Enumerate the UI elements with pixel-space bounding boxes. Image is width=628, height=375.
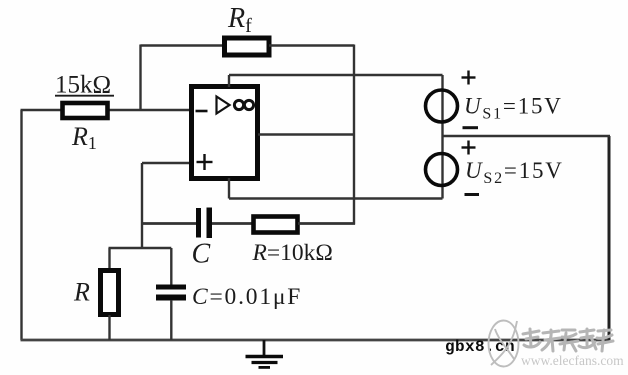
svg-text:Rf: Rf <box>227 3 252 37</box>
svg-text:C=0.01μF: C=0.01μF <box>192 284 302 310</box>
wire output feedback vertical <box>353 45 355 225</box>
wire source column <box>441 75 443 199</box>
label C (series capacitor) <box>192 239 211 270</box>
wire C R row segment 2 <box>212 222 252 225</box>
op-amp plus input sign <box>197 154 213 170</box>
wire C R row segment 3 <box>298 222 355 225</box>
wire C2 branch top <box>170 248 172 285</box>
wire Rf row right <box>269 44 354 46</box>
wire op-amp bottom pin <box>228 178 230 199</box>
svg-text:www.elecfans.com: www.elecfans.com <box>521 353 624 368</box>
svg-text:R1: R1 <box>71 122 97 153</box>
source US2 <box>426 154 458 186</box>
label 15kΩ <box>55 72 114 99</box>
wire right vertical <box>608 136 611 341</box>
svg-text:R=10kΩ: R=10kΩ <box>252 240 333 266</box>
wire R1 to op-amp minus input <box>109 109 189 112</box>
label minus of US2 <box>465 193 480 196</box>
ground <box>246 340 284 367</box>
capacitor C=0.01uF <box>156 285 186 301</box>
wire supply midpoint row <box>443 135 611 137</box>
svg-text:C: C <box>192 239 211 270</box>
wire C2 branch bottom <box>170 300 172 340</box>
watermark logo ellipse <box>489 321 519 367</box>
wire Rf row left <box>141 44 225 46</box>
op-amp infinity symbol <box>234 100 253 109</box>
wire R branch top <box>108 248 110 269</box>
wire op-amp output <box>258 133 354 135</box>
capacitor C (series) <box>196 208 212 239</box>
wire node A vertical (minus node to Rf) <box>139 45 141 111</box>
resistor R=10k <box>254 217 298 233</box>
wire C R row segment 1 <box>142 222 196 225</box>
resistor Rf <box>225 38 270 55</box>
wire plus input row <box>142 162 189 164</box>
wire negative supply row <box>229 197 443 199</box>
source US1 <box>426 90 458 122</box>
wire R branch bottom <box>108 315 110 340</box>
wire parallel RC row <box>109 247 172 249</box>
svg-text:R: R <box>73 278 90 307</box>
op-amp minus input sign <box>196 110 208 113</box>
wire op-amp top pin <box>228 75 230 87</box>
label R1 <box>71 122 97 153</box>
wire left vertical <box>20 110 22 340</box>
svg-text:US2=15V: US2=15V <box>465 158 564 187</box>
op-amp triangle <box>217 97 230 114</box>
resistor R <box>101 271 119 315</box>
label R=10kΩ <box>252 240 333 266</box>
watermark chinese characters <box>523 329 613 351</box>
label plus of US1 <box>462 71 476 85</box>
label C=0.01uF <box>192 284 302 310</box>
watermark gbx8.cn <box>445 338 515 356</box>
wire R1 row left <box>21 109 62 112</box>
svg-text:US1=15V: US1=15V <box>464 94 563 123</box>
label plus of US2 <box>462 141 476 155</box>
wire bottom rail <box>21 339 611 342</box>
wire positive supply row <box>229 74 443 76</box>
resistor R1 <box>63 103 108 118</box>
wire plus node vertical <box>141 163 143 249</box>
op-amp U1 <box>192 87 258 179</box>
label Rf <box>227 3 252 37</box>
svg-text:15kΩ: 15kΩ <box>55 72 111 99</box>
label US1=15V <box>464 94 563 123</box>
label minus of US1 <box>463 126 479 129</box>
watermark elecfans url <box>521 353 624 368</box>
label US2=15V <box>465 158 564 187</box>
label R (parallel resistor) <box>73 278 90 307</box>
